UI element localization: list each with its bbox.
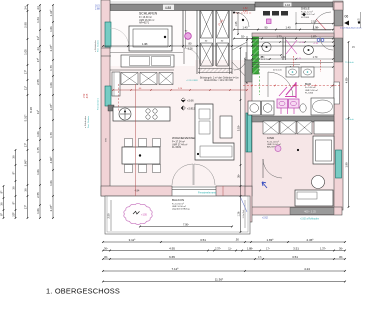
balcony inner vertical dim right [244, 200, 246, 228]
elevation marker 1 [181, 98, 185, 102]
schlafen kitchen wall line [110, 52, 183, 54]
svg-text:4.05: 4.05 [87, 93, 89, 98]
french door left arc [172, 164, 193, 185]
balcony dim 7.00 [140, 226, 232, 228]
bottom dim row 3 [103, 258, 345, 260]
svg-text:1.99: 1.99 [344, 162, 348, 168]
svg-text:3.51: 3.51 [293, 246, 299, 250]
kitchen tall cabinet fridge [112, 72, 120, 96]
svg-text:UMF 5.56 m²: UMF 5.56 m² [305, 89, 318, 92]
sofa L-shape outer [195, 104, 234, 160]
svg-text:+2.82 a Rohboden: +2.82 a Rohboden [300, 219, 320, 221]
svg-text:BALKON: BALKON [172, 198, 184, 202]
svg-text:F= 10.50 m²: F= 10.50 m² [172, 202, 184, 205]
wc door swing magenta cross [286, 40, 297, 54]
svg-text:4.83⁵: 4.83⁵ [344, 77, 348, 83]
kind left wall window teal [246, 113, 252, 152]
staircase right wall [229, 10, 231, 74]
kind wardrobe hatched cells [263, 121, 279, 134]
svg-text:4.24: 4.24 [304, 267, 310, 271]
svg-text:1.63: 1.63 [36, 17, 40, 23]
svg-text:Frei. Galerie: Frei. Galerie [97, 39, 100, 52]
diele magenta symbol [267, 19, 272, 24]
svg-text:36⁵: 36⁵ [339, 255, 343, 259]
svg-text:1.05: 1.05 [235, 21, 238, 26]
left exterior wall [101, 0, 110, 196]
kitchen red dim line [113, 89, 247, 91]
svg-text:3.51: 3.51 [292, 255, 298, 259]
french door right arc [194, 164, 215, 185]
schlafen corridor wall second line [185, 10, 187, 48]
bottom dim row 2 [103, 250, 345, 252]
svg-text:1.52: 1.52 [84, 93, 86, 98]
schlafen corridor door arc [184, 48, 200, 64]
svg-text:36⁵: 36⁵ [104, 246, 108, 250]
balcony revision cloud [124, 203, 152, 224]
svg-text:Frei. Galerie: Frei. Galerie [87, 115, 90, 128]
svg-text:36⁵: 36⁵ [104, 255, 108, 259]
svg-text:2.37⁵: 2.37⁵ [49, 103, 53, 111]
svg-text:FL-5309: FL-5309 [172, 146, 182, 149]
wc dimension line [252, 54, 281, 56]
left dim line D [39, 5, 41, 218]
svg-text:40 Durchl.: 40 Durchl. [273, 70, 283, 72]
balcony outline [105, 196, 250, 234]
bed schlafen mattress [133, 29, 168, 47]
bad door arc [268, 72, 293, 97]
staircase middle stringer [213, 10, 215, 66]
svg-text:.50: .50 [235, 237, 239, 241]
svg-text:F= 11.12 m²: F= 11.12 m² [301, 11, 313, 14]
right dim upper x360 [360, 12, 362, 28]
left wall pier edge lines [101, 47, 111, 49]
top right corner wall block pink [333, 1, 343, 10]
svg-text:38⁵: 38⁵ [236, 174, 240, 178]
svg-text:3.86⁵: 3.86⁵ [23, 159, 27, 167]
dining chairs top row [125, 139, 133, 147]
svg-text:92⁵: 92⁵ [241, 34, 245, 38]
floor bad [252, 35, 334, 116]
kind chair circle [312, 176, 325, 189]
svg-text:AR=9371: AR=9371 [139, 21, 150, 24]
wc bottom wall lines [252, 62, 333, 64]
bad plumbing diagonal [286, 83, 296, 95]
bad red dimension line [243, 85, 340, 87]
svg-text:2.37⁵: 2.37⁵ [49, 204, 53, 212]
svg-text:3.11⁵: 3.11⁵ [129, 238, 137, 242]
wc blue symbols [317, 39, 320, 42]
svg-text:7.00⁵: 7.00⁵ [183, 223, 189, 227]
bad plumbing diagonal 2 [279, 87, 287, 96]
svg-text:Absturzhöhe > 12m OK FFB: Absturzhöhe > 12m OK FFB [204, 79, 233, 82]
svg-text:KIND: KIND [267, 136, 275, 140]
right exterior wall [334, 2, 343, 210]
left wall sill dark block [108, 105, 114, 111]
svg-text:1.26: 1.26 [237, 211, 240, 216]
svg-text:1.75: 1.75 [36, 147, 40, 153]
side table [220, 116, 232, 138]
diele diamond marker [302, 13, 306, 17]
bad plumbing magenta wall [295, 82, 297, 98]
diele shelf blocks [263, 11, 270, 16]
svg-text:1.01: 1.01 [36, 169, 40, 175]
svg-text:1.37⁵: 1.37⁵ [320, 246, 326, 250]
left dim line E [52, 5, 54, 218]
svg-text:1.73: 1.73 [276, 34, 282, 38]
svg-text:1.7m Gel.: 1.7m Gel. [243, 209, 245, 218]
diele dimension line [234, 29, 333, 31]
red vertical line balcony door [222, 186, 224, 196]
svg-text:F= 11.04 m²: F= 11.04 m² [267, 140, 279, 143]
top exterior wall hatched right section [255, 2, 333, 7]
stair vertical dim x247 [246, 36, 248, 84]
svg-text:2.55: 2.55 [36, 79, 40, 85]
washbasin vanity magenta [277, 99, 288, 108]
left wall window lower teal [105, 86, 111, 106]
svg-text:7.12⁵: 7.12⁵ [171, 267, 179, 271]
svg-text:11.36⁵: 11.36⁵ [215, 277, 224, 281]
sideboard outer [121, 55, 174, 67]
svg-text:+1.35: +1.35 [313, 43, 319, 45]
left dim line B [15, 150, 17, 218]
svg-text:5.31⁵: 5.31⁵ [23, 114, 27, 122]
bottom dim row 1 [103, 241, 345, 243]
svg-text:1.38⁵: 1.38⁵ [142, 42, 148, 46]
svg-text:1.88⁵: 1.88⁵ [247, 246, 253, 250]
svg-text:FL-5305: FL-5305 [301, 17, 310, 19]
gallery entry door arc top-left [110, 28, 129, 47]
svg-text:1.70: 1.70 [313, 56, 318, 59]
red vertical line kitchen left [118, 84, 120, 112]
floor living room [110, 60, 245, 186]
staircase flight 2 upper cell [217, 11, 229, 39]
balcony cloud label [133, 211, 140, 214]
interior wall diele-bad [252, 33, 334, 37]
svg-text:DIELE: DIELE [301, 6, 310, 10]
svg-text:06: 06 [345, 15, 349, 19]
kind door arc [263, 159, 282, 178]
svg-text:+2.815: +2.815 [187, 107, 196, 111]
stair splay lines [232, 42, 247, 50]
svg-text:1.83⁵: 1.83⁵ [266, 238, 274, 242]
green shaft element [253, 37, 259, 74]
right wall hatched segment 1 [335, 10, 343, 26]
svg-text:1.76: 1.76 [49, 65, 53, 71]
svg-text:2.50: 2.50 [107, 213, 111, 219]
svg-text:1.40: 1.40 [242, 25, 248, 29]
svg-text:MW: MW [106, 138, 108, 142]
right wall window teal kind room [336, 150, 342, 178]
svg-text:+2.26 OKFF: +2.26 OKFF [186, 80, 199, 82]
svg-text:F= 5.56 m²: F= 5.56 m² [305, 86, 316, 89]
svg-text:4.05: 4.05 [243, 11, 248, 13]
lamp symbol corridor magenta circle [185, 33, 192, 40]
staircase left wall [196, 10, 198, 74]
left dim line A short bottom [3, 186, 5, 218]
stair walking line arrow [234, 52, 246, 70]
svg-text:1.76: 1.76 [49, 132, 53, 138]
kind lamp magenta circle [275, 146, 281, 152]
svg-text:Fensterelement: Fensterelement [198, 190, 216, 194]
svg-text:36: 36 [23, 188, 27, 192]
svg-text:2.01⁵: 2.01⁵ [311, 19, 317, 23]
right vertical dim x348 [348, 42, 350, 207]
svg-text:+2.62: +2.62 [262, 218, 269, 220]
svg-text:36: 36 [11, 155, 15, 159]
left wall window upper teal [105, 22, 111, 47]
svg-text:Brüstungsh. 1 m² dort Geländer: Brüstungsh. 1 m² dort Geländer h=1m [200, 76, 239, 79]
magenta drain marks under vanity [280, 108, 282, 114]
svg-text:2.55: 2.55 [36, 192, 40, 198]
top wall dimension label 1.10 [284, 3, 292, 7]
stair hinge dot [242, 19, 244, 21]
wall junction living-kind [245, 186, 252, 222]
svg-text:24: 24 [23, 6, 27, 10]
svg-text:1.52: 1.52 [243, 8, 248, 10]
svg-text:2.88: 2.88 [95, 8, 100, 11]
svg-text:SCHLAFEN: SCHLAFEN [139, 12, 158, 16]
svg-text:a Rohboden: a Rohboden [85, 115, 87, 128]
svg-text:Zuluft Bad-Nachstrom: Zuluft Bad-Nachstrom [340, 27, 361, 30]
svg-text:24: 24 [36, 6, 40, 10]
kind bottom wall hatched part [290, 208, 334, 215]
kind blue arrow [262, 182, 267, 188]
red dashed corridor line [233, 12, 252, 14]
corridor vertical dim x238 [237, 12, 239, 35]
svg-text:+105: +105 [141, 213, 147, 217]
floor diele corridor [232, 10, 334, 35]
sideboard drawer right [152, 57, 171, 66]
elevation marker 2 [181, 106, 185, 110]
kind desk [295, 190, 333, 206]
vertical dim line x240 [240, 48, 242, 232]
balcony corner blue diagonal [240, 196, 247, 212]
diele door arc stair [234, 12, 249, 27]
wc shower circle [262, 42, 271, 51]
svg-text:2.90: 2.90 [23, 22, 27, 28]
right wall duct niche [334, 82, 340, 104]
corridor hatched wall block [245, 60, 252, 82]
wc top-right door arc [320, 37, 333, 50]
svg-text:36: 36 [0, 202, 3, 206]
kind room bottom wall [245, 207, 342, 215]
bathtub [311, 98, 334, 115]
svg-text:17⁵: 17⁵ [258, 255, 262, 259]
svg-text:1.40: 1.40 [285, 25, 291, 29]
svg-text:UMF 10.50 m²: UMF 10.50 m² [172, 205, 186, 208]
balcony right wall teal diagonal [330, 84, 334, 88]
wc room partition wall [282, 37, 284, 60]
staircase bottom landing hatched [198, 69, 234, 73]
svg-text:75 Zuluft: 75 Zuluft [345, 61, 354, 64]
svg-text:+1.20: +1.20 [299, 42, 305, 44]
washing machine 2 [262, 101, 275, 115]
wc area dimension lines [252, 41, 333, 43]
wc red dashed riser [293, 56, 295, 70]
svg-text:4.95: 4.95 [169, 246, 175, 250]
svg-text:1.05: 1.05 [23, 49, 27, 55]
staircase flight 1 upper cell [201, 11, 213, 39]
svg-text:2.36⁵: 2.36⁵ [306, 238, 314, 242]
svg-text:400 - 1.25: 400 - 1.25 [304, 210, 316, 214]
bottom dim row 4 [103, 270, 345, 272]
bad toilet [300, 104, 306, 112]
right side triangle marker [344, 21, 349, 26]
svg-text:11⁵: 11⁵ [228, 246, 231, 250]
kind closet rect [314, 121, 334, 134]
svg-text:Fenstersims: Fenstersims [97, 97, 100, 110]
living room bottom wall left part [101, 186, 172, 196]
red dashed riser right wall [320, 60, 322, 72]
cooktop burners [146, 109, 150, 113]
svg-text:F= 2.7 m²: F= 2.7 m² [261, 58, 270, 61]
right wall hatched segment 2 [335, 38, 343, 62]
bed schlafen outer [129, 26, 172, 51]
horizontal dim line y46 through plan [103, 45, 334, 47]
kitchen island [113, 107, 170, 121]
svg-text:abgedichtet/Belag: abgedichtet/Belag [172, 208, 190, 211]
bottom dim row 5 overall [103, 281, 345, 283]
svg-text:2.37⁵: 2.37⁵ [215, 246, 221, 250]
svg-text:6.65: 6.65 [169, 255, 175, 259]
green dashed service line [259, 58, 261, 95]
svg-text:3.51: 3.51 [200, 238, 206, 242]
diele door arc right [313, 12, 331, 30]
svg-text:75 Zuluft: 75 Zuluft [345, 118, 354, 121]
svg-text:+2.66: +2.66 [187, 99, 194, 103]
top exterior wall hatched left section [110, 4, 255, 11]
dining chairs bottom row [125, 165, 133, 173]
staircase flight 2 lower cell [217, 43, 229, 66]
bad vanity sink right [301, 67, 314, 77]
balcony left dim 2.50 rotated [110, 200, 112, 231]
kitchen counter hatched cells [110, 69, 174, 71]
balcony railing inner line [107, 196, 248, 232]
diele dimension line 2 [234, 38, 333, 40]
svg-text:a Rohdecke: a Rohdecke [95, 39, 97, 51]
svg-text:3.18⁵: 3.18⁵ [236, 125, 240, 131]
floor kind room [252, 122, 334, 207]
schlafen right wall [182, 10, 184, 48]
svg-text:44: 44 [36, 47, 40, 51]
svg-text:17⁵: 17⁵ [266, 246, 270, 250]
svg-text:36⁵: 36⁵ [339, 246, 343, 250]
svg-text:8.18: 8.18 [29, 107, 33, 113]
svg-text:1.01: 1.01 [36, 131, 40, 137]
dining table [122, 147, 160, 164]
svg-text:FL-5306: FL-5306 [305, 92, 314, 94]
diele upper dim segment [296, 23, 333, 25]
svg-text:1.01: 1.01 [49, 26, 53, 32]
svg-text:4.90⁵: 4.90⁵ [49, 156, 53, 164]
svg-text:1.98⁵: 1.98⁵ [313, 25, 319, 29]
svg-text:1.01: 1.01 [49, 180, 53, 186]
sideboard drawer left [130, 57, 150, 66]
svg-text:1. OBERGESCHOSS: 1. OBERGESCHOSS [46, 287, 120, 296]
svg-text:1.34⁵: 1.34⁵ [49, 9, 53, 17]
washing machine 1 [248, 101, 261, 115]
red vertical line through living [135, 84, 137, 196]
svg-text:2.37⁵: 2.37⁵ [49, 44, 53, 52]
diele red door diagonal [316, 19, 326, 30]
floor schlafen [110, 10, 195, 66]
svg-text:1.01: 1.01 [36, 208, 40, 214]
wall between bad and kind hatched [252, 116, 334, 122]
staircase flight 1 lower cell [201, 43, 213, 66]
sofa cushions [199, 109, 210, 119]
top wall dimension label 4.88 [163, 5, 174, 11]
kind bed mattress [316, 140, 332, 161]
svg-text:+1.20: +1.20 [296, 58, 302, 60]
interior wall between wohnen and bad-kind [245, 60, 252, 186]
svg-text:1.01: 1.01 [49, 82, 53, 88]
svg-text:36: 36 [11, 186, 15, 190]
svg-text:1.10: 1.10 [285, 3, 291, 7]
svg-text:1.87⁵: 1.87⁵ [311, 34, 317, 38]
svg-text:1.26: 1.26 [187, 47, 193, 51]
diele vertical dim x296 [295, 12, 297, 30]
bad vanity sink left [286, 67, 299, 77]
svg-text:4.88: 4.88 [165, 6, 171, 10]
svg-text:20⁵: 20⁵ [11, 211, 15, 216]
wc washbasin oval [304, 46, 314, 55]
wc area dimension line 3 [252, 66, 333, 68]
kitchen sink circle [119, 108, 131, 120]
left dim line C [27, 5, 29, 218]
kind bed outer [313, 136, 334, 164]
balcony door window element [172, 186, 216, 188]
living room bottom wall right part [216, 186, 252, 196]
